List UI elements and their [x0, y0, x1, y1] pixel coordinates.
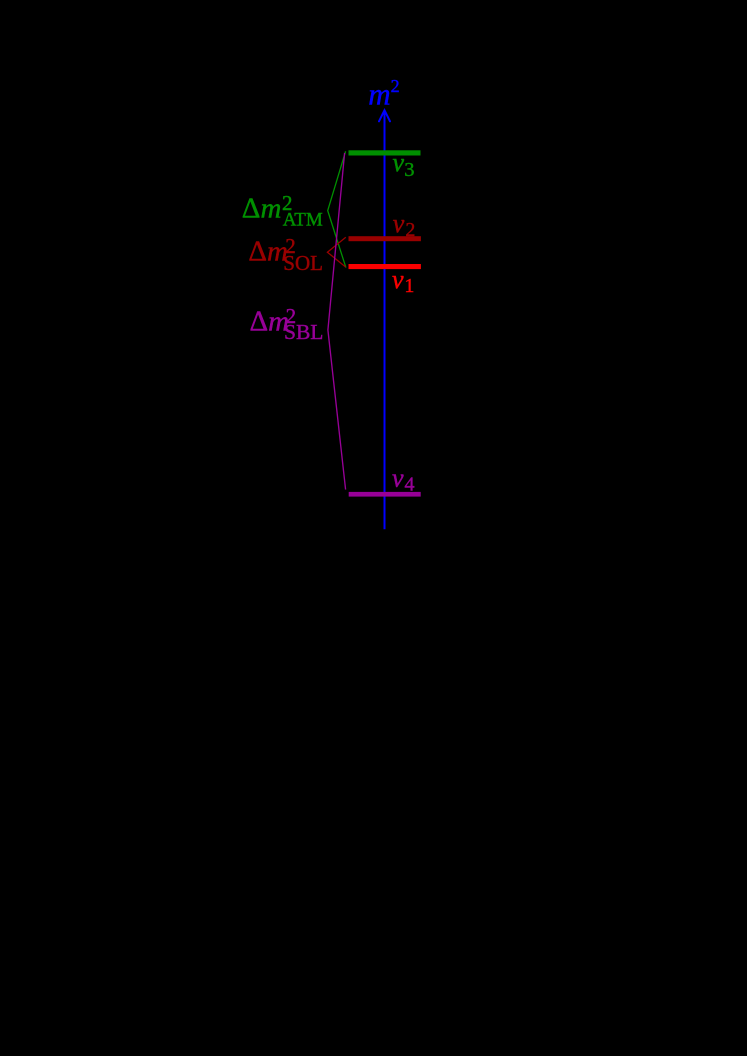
level nu3 (green) — [349, 150, 421, 155]
level nu2 (dark red) — [349, 236, 421, 241]
axis m^2 vertical line — [384, 112, 386, 529]
svg-text:2: 2 — [391, 76, 400, 96]
svg-text:ν: ν — [393, 209, 405, 238]
level nu1 (red) — [349, 264, 421, 269]
svg-text:Δm: Δm — [242, 192, 282, 224]
svg-text:ν: ν — [393, 148, 405, 177]
svg-text:ν: ν — [392, 265, 404, 294]
brace SBL (magenta) — [328, 153, 346, 490]
svg-text:1: 1 — [404, 275, 414, 297]
axis arrowhead — [379, 110, 390, 121]
brace SOL (dark red) — [327, 237, 345, 267]
svg-text:m: m — [368, 77, 390, 112]
svg-text:SBL: SBL — [284, 320, 323, 344]
svg-text:ν: ν — [392, 464, 404, 493]
level nu4 (magenta) — [349, 492, 421, 497]
svg-text:SOL: SOL — [283, 251, 323, 275]
svg-text:Δm: Δm — [248, 235, 288, 267]
svg-text:4: 4 — [405, 474, 415, 496]
svg-text:2: 2 — [405, 219, 415, 241]
svg-text:3: 3 — [404, 159, 414, 181]
brace ATM (green) — [328, 151, 346, 267]
svg-text:ATM: ATM — [283, 209, 323, 230]
